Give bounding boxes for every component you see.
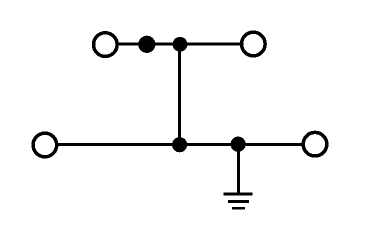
node D (bottom junction to ground) — [231, 137, 246, 152]
ground bar 1 — [224, 193, 253, 196]
ground bar 2 — [228, 200, 249, 203]
terminal X2 (top-right open circle) — [242, 32, 266, 56]
wire vertical: top node to bottom node — [178, 44, 181, 145]
terminal X1 (top-left open circle) — [94, 33, 118, 57]
wire top: terminal X1 to junction — [117, 43, 147, 46]
wire top: junction to terminal X2 — [147, 43, 241, 46]
junction dot A (top wire, large) — [138, 36, 155, 53]
ground bar 3 — [232, 207, 245, 210]
wire bottom: junction to terminal X4 — [180, 143, 302, 146]
node B (top junction of vertical wire) — [173, 37, 188, 52]
node C (bottom junction of vertical wire) — [172, 137, 187, 152]
wire bottom: terminal X3 to junction — [57, 143, 180, 146]
terminal X3 (bottom-left open circle) — [33, 133, 57, 157]
wire: junction to ground — [237, 145, 240, 193]
terminal X4 (bottom-right open circle) — [303, 132, 327, 156]
